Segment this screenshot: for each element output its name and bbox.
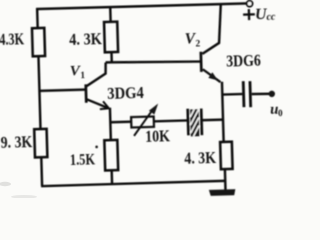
capacitor C right plate	[249, 81, 253, 107]
scan smudge bottom left	[0, 182, 11, 186]
transistor V1 collector	[86, 63, 107, 87]
wire capacitor to output terminal	[252, 92, 270, 95]
wire bottom rail	[41, 181, 225, 186]
svg-text:0: 0	[278, 108, 283, 118]
wire right vertical lower to ground	[224, 169, 227, 190]
wire right vertical upper	[222, 82, 224, 142]
wire V1 base	[38, 90, 86, 91]
svg-text:cc: cc	[266, 12, 276, 23]
potentiometer RP arrow shaft	[133, 109, 154, 136]
wire R1 bottom to base node	[38, 56, 40, 129]
stray dot above 1.5K	[95, 146, 98, 149]
transistor V1 emitter	[87, 99, 109, 109]
svg-text:9. 3K: 9. 3K	[0, 132, 33, 152]
crystal B right plate	[200, 109, 203, 136]
wire top supply rail	[36, 3, 247, 9]
output terminal dot	[269, 91, 276, 98]
crystal B left plate	[186, 109, 189, 136]
wire left vertical from rail to R1	[36, 8, 39, 28]
resistor R1 4.3K body	[32, 28, 45, 56]
svg-text:4. 3K: 4. 3K	[184, 148, 217, 168]
resistor R4 1.5K body	[104, 140, 118, 171]
wire capacitor branch	[222, 93, 242, 96]
svg-text:10K: 10K	[145, 126, 170, 146]
svg-text:4.3K: 4.3K	[0, 29, 25, 49]
wire 1.5K bottom lead	[110, 170, 113, 184]
svg-text:1: 1	[80, 71, 85, 81]
wire V1 collector to V2 base	[106, 60, 201, 64]
svg-text:3DG4: 3DG4	[107, 83, 145, 103]
wire crystal to right vertical	[203, 118, 224, 121]
ground symbol	[209, 189, 236, 196]
potentiometer RP 10K body	[131, 116, 154, 127]
resistor R3 9.3K body	[34, 129, 47, 158]
svg-text:1.5K: 1.5K	[70, 151, 95, 169]
potentiometer RP arrowhead	[149, 104, 159, 115]
wire 9.3K bottom lead	[40, 157, 43, 186]
svg-text:3DG6: 3DG6	[226, 50, 261, 70]
capacitor C left plate	[242, 81, 246, 107]
resistor R5 4.3K body	[220, 142, 232, 170]
transistor V1 emitter arrowhead	[100, 107, 109, 110]
wire R2 top lead	[109, 6, 112, 22]
wire emitter node to potentiometer	[110, 120, 131, 123]
svg-text:4. 3K: 4. 3K	[69, 29, 103, 49]
crystal B hatched body	[190, 109, 199, 136]
resistor R2 4.3K body	[104, 22, 118, 53]
transistor V2 collector	[201, 4, 222, 54]
wire R2 bottom lead	[110, 52, 113, 63]
transistor V2 base bar	[199, 52, 202, 72]
transistor V1 base bar	[84, 84, 87, 102]
svg-text:2: 2	[195, 39, 200, 49]
wire V1 emitter vertical	[109, 108, 112, 141]
label supply +Ucc	[243, 9, 255, 20]
wire potentiometer to crystal	[154, 119, 188, 122]
+Ucc supply terminal circle	[247, 1, 253, 7]
transistor V2 emitter	[203, 69, 221, 83]
transistor V2 emitter arrowhead	[208, 72, 218, 81]
